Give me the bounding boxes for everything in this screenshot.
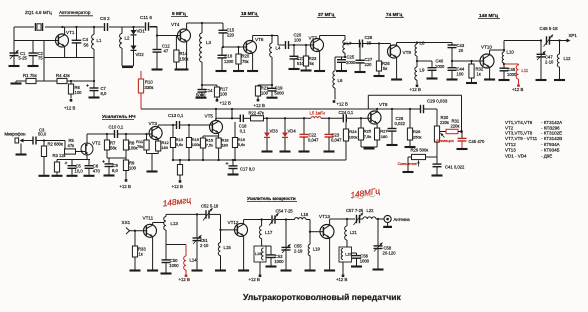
node L7 bottom bbox=[344, 53, 346, 58]
inductor L13 bbox=[164, 214, 179, 230]
wire C52 to VT12 bbox=[209, 214, 221, 242]
svg-text:C40: C40 bbox=[436, 59, 444, 64]
wire VT11 emitter bbox=[152, 237, 154, 270]
ground VD chain bbox=[122, 66, 133, 68]
transistor VT7 bbox=[309, 36, 324, 52]
svg-text:R22 47к: R22 47к bbox=[249, 110, 265, 115]
transistor VT6 bbox=[244, 37, 264, 54]
heading 9 МГц bbox=[171, 11, 188, 17]
svg-text:2-10: 2-10 bbox=[200, 243, 209, 248]
supply +12V row bbox=[172, 180, 183, 189]
capacitor C58 trimmer bbox=[374, 219, 397, 269]
label R3 bbox=[53, 153, 66, 158]
microphone jack bbox=[15, 138, 29, 143]
ground VT3 bbox=[147, 170, 158, 172]
svg-text:Смещение: Смещение bbox=[398, 161, 417, 166]
svg-text:Усилитель мощности: Усилитель мощности bbox=[247, 196, 296, 201]
wire L8 to C43 bbox=[417, 43, 452, 46]
ground VT9 emitter bbox=[391, 78, 402, 80]
svg-text:+12 В: +12 В bbox=[220, 100, 231, 105]
diode VD1 bbox=[131, 27, 146, 35]
ground C12 bbox=[152, 68, 163, 70]
svg-text:47: 47 bbox=[164, 49, 169, 54]
svg-text:+12 В: +12 В bbox=[337, 102, 348, 107]
antenna connector bbox=[383, 215, 410, 227]
svg-text:20-120: 20-120 bbox=[383, 251, 397, 256]
heading 74 МГц bbox=[385, 12, 404, 18]
svg-text:1к: 1к bbox=[477, 72, 481, 77]
wire to VT5 base bbox=[180, 124, 213, 126]
wire L16 bottom bbox=[259, 262, 261, 274]
node L10 top bbox=[503, 49, 505, 51]
transistor VT10 bbox=[480, 45, 494, 69]
capacitor C10 bbox=[109, 125, 124, 138]
svg-text:L5 1мГн: L5 1мГн bbox=[310, 110, 326, 115]
resistor R18 bbox=[216, 136, 229, 160]
svg-text:Девиация: Девиация bbox=[436, 138, 454, 143]
svg-text:250к: 250к bbox=[413, 135, 422, 140]
capacitor C5 bbox=[65, 160, 84, 175]
svg-text:C25: C25 bbox=[347, 55, 355, 60]
svg-text:148 МГц: 148 МГц bbox=[479, 13, 498, 19]
svg-text:10,0: 10,0 bbox=[75, 169, 84, 174]
diode VD2 bbox=[131, 36, 145, 67]
resistor R32 bbox=[469, 60, 484, 82]
ground VT11 bbox=[147, 269, 158, 271]
ground L19 bbox=[305, 269, 316, 271]
inductor L12 bbox=[557, 41, 571, 80]
svg-text:VD3: VD3 bbox=[270, 128, 279, 133]
transistor VT2 bbox=[76, 141, 101, 155]
heading 37 МГц bbox=[317, 12, 336, 18]
handwritten 148MHz left bbox=[162, 195, 192, 209]
capacitor C17 bbox=[226, 159, 256, 174]
heading Усилитель мощности bbox=[247, 196, 297, 202]
node L12 top bbox=[558, 39, 560, 41]
svg-text:C16: C16 bbox=[225, 54, 233, 59]
inductor L11 choke bbox=[504, 64, 529, 84]
svg-text:5к: 5к bbox=[310, 61, 314, 66]
inductor L16 shielded bbox=[254, 246, 266, 262]
svg-text:100: 100 bbox=[220, 91, 228, 96]
svg-text:5000: 5000 bbox=[196, 92, 206, 97]
resistor R21 bbox=[255, 85, 272, 99]
svg-text:L15: L15 bbox=[224, 245, 232, 250]
ground C55 bbox=[281, 269, 292, 271]
inductor L7 bbox=[343, 36, 352, 54]
svg-text:- КТ3142А: - КТ3142А bbox=[541, 120, 562, 125]
svg-text:C29 0,033: C29 0,033 bbox=[427, 99, 448, 104]
svg-text:C52 5-18: C52 5-18 bbox=[201, 204, 219, 209]
svg-text:1000: 1000 bbox=[507, 72, 517, 77]
ground R26 bbox=[374, 75, 385, 77]
svg-text:7,5к: 7,5к bbox=[364, 134, 372, 139]
svg-text:- КТ934А: - КТ934А bbox=[541, 142, 560, 147]
svg-text:7,5к: 7,5к bbox=[206, 143, 213, 148]
ground C53 bbox=[266, 265, 277, 267]
svg-text:L2: L2 bbox=[125, 36, 130, 41]
node L10 bottom bbox=[503, 63, 505, 68]
capacitor C51 trimmer bbox=[193, 213, 210, 269]
resistor R24 bbox=[343, 123, 357, 161]
inductor L15 bbox=[218, 242, 231, 269]
svg-text:74 МГц: 74 МГц bbox=[386, 12, 402, 18]
svg-text:1000: 1000 bbox=[169, 263, 179, 268]
svg-text:L18: L18 bbox=[301, 212, 309, 217]
ground C5 bbox=[67, 175, 78, 177]
diode VD4 varicap bbox=[282, 117, 296, 150]
capacitor C25 bbox=[337, 55, 356, 71]
supply +12V R21 bbox=[254, 99, 265, 108]
svg-text:+12 В: +12 В bbox=[410, 87, 421, 92]
svg-text:R10: R10 bbox=[145, 80, 153, 85]
svg-text:+12 В: +12 В bbox=[172, 184, 183, 189]
svg-text:VT2: VT2 bbox=[505, 125, 514, 130]
ground VD3 bbox=[262, 150, 273, 152]
ground C25 bbox=[336, 70, 347, 72]
svg-text:8,0: 8,0 bbox=[112, 168, 118, 173]
node L4 top bbox=[271, 34, 273, 36]
wire bus main bbox=[264, 117, 371, 119]
ground R20 bbox=[233, 70, 244, 72]
svg-text:VT1,VT4,VT6: VT1,VT4,VT6 bbox=[505, 120, 533, 125]
capacitor C45 bbox=[458, 132, 486, 149]
ground C46 bbox=[499, 79, 510, 81]
capacitor C14 bbox=[196, 85, 213, 97]
resistor R22 bbox=[249, 110, 265, 120]
label Девиация bbox=[436, 138, 454, 143]
wire VT11 collector tap bbox=[153, 223, 164, 226]
svg-text:Усилитель НЧ: Усилитель НЧ bbox=[102, 114, 136, 120]
svg-text:2-19: 2-19 bbox=[294, 248, 303, 253]
ground C51 bbox=[192, 269, 203, 271]
ground C47 bbox=[536, 79, 547, 81]
svg-text:L6: L6 bbox=[338, 78, 343, 83]
inductor L20 shielded bbox=[339, 247, 353, 262]
ground mic bbox=[16, 144, 27, 155]
svg-text:C22: C22 bbox=[309, 132, 317, 137]
svg-text:2000: 2000 bbox=[346, 60, 356, 65]
inductor L1 bbox=[92, 27, 102, 58]
wire VT10 base bbox=[452, 60, 483, 62]
svg-text:+12 В: +12 В bbox=[249, 277, 260, 282]
resistor R12 bbox=[156, 139, 169, 154]
ground C40 bbox=[427, 77, 438, 79]
wire output to pi filter bbox=[504, 41, 541, 51]
wire varicap feed line bbox=[141, 109, 437, 126]
ground R25 R27 bbox=[364, 147, 375, 149]
svg-text:1000: 1000 bbox=[435, 64, 445, 69]
node C55 top bbox=[285, 218, 287, 220]
capacitor C21 bbox=[290, 44, 305, 68]
ground C45 bbox=[457, 148, 468, 150]
inductor L22 bbox=[363, 208, 376, 219]
svg-text:5,6к: 5,6к bbox=[238, 142, 245, 147]
ground R1 left bbox=[11, 81, 22, 84]
resistor R17 bbox=[202, 85, 228, 99]
resistor R3 bbox=[54, 160, 59, 175]
wire R30 bottom bbox=[436, 142, 438, 157]
svg-text:C14: C14 bbox=[205, 88, 213, 93]
svg-text:330к: 330к bbox=[145, 85, 154, 90]
capacitor C19 bbox=[268, 85, 285, 97]
wire C57 to L22 bbox=[360, 218, 364, 220]
transistor VT1 bbox=[56, 30, 75, 47]
ground C14 bbox=[196, 97, 207, 99]
svg-text:- КП3296: - КП3296 bbox=[541, 125, 560, 130]
capacitor C47 trimmer bbox=[537, 41, 555, 80]
capacitor C6 bbox=[85, 160, 101, 175]
wire R7-R8 bottoms bbox=[107, 157, 126, 159]
resistor R5 bbox=[65, 138, 82, 154]
svg-text:5,6к: 5,6к bbox=[176, 142, 183, 147]
svg-text:- Д9Е: - Д9Е bbox=[541, 153, 552, 158]
svg-text:R24: R24 bbox=[349, 129, 357, 134]
node L3 bottom bbox=[201, 84, 203, 86]
ground R3 bbox=[52, 175, 63, 177]
inductor L4 bbox=[270, 36, 281, 86]
capacitor C12 bbox=[153, 44, 171, 69]
capacitor C48 trimmer bbox=[540, 26, 559, 47]
svg-text:- КТ3142В: - КТ3142В bbox=[541, 136, 562, 141]
svg-text:100: 100 bbox=[75, 90, 83, 95]
svg-text:L12: L12 bbox=[564, 56, 572, 61]
resistor R25 bbox=[358, 117, 372, 147]
ground VT6 emitter bbox=[247, 70, 258, 72]
svg-text:0,047: 0,047 bbox=[308, 138, 319, 143]
transistor VT12 bbox=[228, 220, 248, 236]
svg-text:C17 8,0: C17 8,0 bbox=[240, 166, 255, 171]
resistor R13 bbox=[170, 124, 183, 160]
ground VT4 bbox=[175, 68, 189, 70]
inductor L6 choke bbox=[333, 57, 345, 100]
wire VT4 collector bbox=[187, 23, 202, 30]
wire R25-R27 join bbox=[361, 146, 377, 148]
capacitor C29 bbox=[421, 99, 448, 114]
svg-text:L3: L3 bbox=[206, 40, 211, 45]
svg-text:220к: 220к bbox=[440, 120, 449, 125]
wire base divider bbox=[43, 41, 45, 82]
svg-text:220к: 220к bbox=[451, 124, 460, 129]
capacitor C26 bbox=[360, 35, 373, 48]
svg-text:180: 180 bbox=[221, 143, 228, 148]
capacitor C4 bbox=[72, 27, 89, 58]
label Микрофон bbox=[5, 132, 27, 137]
pencil note bbox=[352, 195, 375, 200]
wire VT12 base bbox=[219, 229, 237, 231]
node bias-C7 bbox=[93, 80, 95, 82]
capacitor C7 bbox=[86, 81, 107, 97]
wire VT8 collector bbox=[376, 109, 378, 112]
wire C11 to VT4 bbox=[150, 27, 181, 50]
wire VT1 collector bbox=[64, 27, 66, 35]
resistor R4 bbox=[56, 73, 70, 84]
svg-text:R1 75к: R1 75к bbox=[23, 73, 37, 78]
svg-text:C58: C58 bbox=[384, 245, 392, 250]
wire L3 collector bus bbox=[202, 22, 223, 24]
svg-text:VT10: VT10 bbox=[481, 45, 492, 50]
inductor L9 bbox=[415, 67, 425, 84]
supply +12V L9 bbox=[410, 84, 421, 92]
svg-text:37 МГц: 37 МГц bbox=[318, 12, 334, 18]
svg-text:C45 470: C45 470 bbox=[469, 139, 486, 144]
svg-text:VT8: VT8 bbox=[379, 102, 388, 107]
capacitor C53 bbox=[262, 246, 285, 266]
capacitor C54 trimmer bbox=[269, 209, 293, 226]
svg-text:+12 В: +12 В bbox=[512, 87, 523, 92]
connector XS1 bbox=[122, 220, 147, 234]
svg-text:VT11: VT11 bbox=[143, 216, 154, 221]
wire VT1 emitter bbox=[64, 46, 66, 57]
svg-text:R27: R27 bbox=[380, 129, 388, 134]
svg-text:5000: 5000 bbox=[275, 91, 285, 96]
svg-text:9 МГц: 9 МГц bbox=[172, 11, 186, 17]
inductor L19 bbox=[308, 232, 320, 270]
capacitor C46 bbox=[500, 67, 517, 79]
wire VT7 base bbox=[289, 44, 314, 46]
svg-text:+12 В: +12 В bbox=[336, 277, 347, 282]
wire C50-L14 branch bbox=[166, 244, 186, 246]
resistor R28 bbox=[407, 108, 421, 146]
node bias-R6 bbox=[70, 80, 72, 82]
svg-text:ХР1: ХР1 bbox=[569, 33, 578, 38]
svg-text:C57 7-25: C57 7-25 bbox=[346, 208, 364, 213]
svg-text:75к: 75к bbox=[242, 59, 249, 64]
svg-text:Микрофон: Микрофон bbox=[5, 132, 27, 137]
svg-text:- КТ3102Е: - КТ3102Е bbox=[541, 131, 562, 136]
ground C17 bbox=[228, 173, 239, 175]
resistor R14 bbox=[174, 36, 189, 70]
svg-text:VT12: VT12 bbox=[228, 220, 239, 225]
ground C27 bbox=[355, 71, 366, 73]
svg-text:VT1: VT1 bbox=[66, 30, 75, 35]
resistor R10 bbox=[138, 71, 153, 109]
svg-text:R25: R25 bbox=[364, 129, 372, 134]
diode VD3 varicap bbox=[264, 117, 278, 150]
wire VT6 emitter bbox=[252, 53, 254, 70]
svg-text:470: 470 bbox=[93, 169, 101, 174]
wire C54 to L18 bbox=[275, 219, 295, 221]
ground R28 bbox=[405, 146, 416, 148]
wire to XP1 bbox=[550, 40, 568, 42]
resistor R11 bbox=[136, 133, 149, 154]
wire VT9 collector bbox=[397, 43, 417, 46]
capacitor C41 bbox=[433, 157, 465, 175]
svg-text:100: 100 bbox=[129, 165, 137, 170]
supply +12V L14 bbox=[179, 274, 190, 282]
svg-text:L22: L22 bbox=[367, 208, 375, 213]
wire VT2 drain bbox=[87, 134, 115, 143]
ground C28 bbox=[387, 144, 398, 146]
wire L7 to C26 bbox=[344, 42, 360, 44]
resistor R16 bbox=[200, 136, 213, 160]
ground C44 bbox=[447, 78, 458, 80]
supply +12V L6 bbox=[333, 100, 348, 106]
svg-text:56к: 56к bbox=[110, 145, 117, 150]
svg-text:R28: R28 bbox=[413, 129, 421, 134]
svg-text:VD4: VD4 bbox=[288, 128, 297, 133]
capacitor C13 bbox=[168, 113, 184, 129]
ground VT7 emitter bbox=[314, 70, 325, 72]
capacitor C18 bbox=[239, 115, 247, 134]
inductor L5 bbox=[310, 110, 326, 118]
node C47 top bbox=[540, 39, 542, 41]
capacitor C55 trimmer bbox=[282, 220, 304, 270]
ground C21 bbox=[289, 68, 300, 70]
wire L13 bottom bbox=[165, 230, 167, 245]
svg-text:L19: L19 bbox=[313, 246, 321, 251]
wire bottom bias row bbox=[16, 80, 94, 82]
svg-text:VT3,VT5,VT8: VT3,VT5,VT8 bbox=[505, 131, 533, 136]
ground C1 bbox=[9, 65, 20, 67]
inductor L14 bbox=[184, 245, 197, 275]
svg-text:220: 220 bbox=[365, 62, 373, 67]
ground C19 bbox=[267, 97, 278, 99]
node rail-VD1 bbox=[132, 26, 134, 28]
crystal ZQ1 bbox=[35, 23, 42, 31]
wire L22 to antenna bbox=[376, 218, 384, 220]
svg-text:VT5: VT5 bbox=[205, 114, 214, 119]
ground R2 bbox=[39, 175, 50, 177]
ground C9 bbox=[104, 174, 115, 176]
svg-text:VT9: VT9 bbox=[403, 50, 412, 55]
svg-text:1000: 1000 bbox=[360, 259, 370, 264]
svg-text:VT2: VT2 bbox=[92, 141, 101, 146]
wire source row bbox=[57, 159, 90, 161]
wire VT13 collector bbox=[330, 219, 355, 225]
node L21 top bbox=[346, 218, 348, 220]
resistor R19 bbox=[232, 122, 245, 160]
capacitor C22 bbox=[300, 117, 320, 150]
node L8 top bbox=[416, 41, 418, 43]
capacitor C1 trimmer bbox=[10, 50, 28, 65]
ground VT13 bbox=[324, 269, 335, 271]
node rail-VT1 bbox=[61, 26, 63, 28]
wire mic to gate bbox=[36, 140, 65, 142]
wire VT2 source bbox=[86, 155, 88, 160]
inductor L21 bbox=[345, 219, 358, 247]
inductor L8 bbox=[415, 41, 425, 57]
capacitor C8 bbox=[100, 16, 110, 31]
connector XP1 bbox=[567, 33, 578, 43]
svg-text:R2 680к: R2 680к bbox=[48, 141, 64, 146]
svg-text:C8 2: C8 2 bbox=[100, 16, 110, 21]
svg-text:100: 100 bbox=[457, 71, 465, 76]
ground C2 bbox=[28, 65, 39, 67]
svg-text:VT13: VT13 bbox=[505, 147, 516, 152]
svg-text:148МГц: 148МГц bbox=[350, 186, 381, 200]
svg-text:C13 0,1: C13 0,1 bbox=[168, 113, 184, 118]
svg-text:180: 180 bbox=[381, 134, 388, 139]
wire bus left bbox=[216, 118, 241, 120]
svg-text:18 МГц: 18 МГц bbox=[241, 11, 257, 17]
node L19 top bbox=[309, 231, 311, 233]
svg-text:- КТ934Б: - КТ934Б bbox=[541, 147, 560, 152]
svg-text:L17: L17 bbox=[265, 230, 273, 235]
node rail-C4 bbox=[75, 26, 77, 28]
svg-text:VT7,VT9 - VT11: VT7,VT9 - VT11 bbox=[505, 136, 538, 141]
svg-text:+12 В: +12 В bbox=[120, 184, 131, 189]
heading 18 МГц bbox=[240, 11, 259, 17]
label Смещение bbox=[398, 161, 417, 166]
inductor L2 bbox=[120, 27, 130, 66]
supply +12V R17 bbox=[216, 99, 231, 105]
resistor R26 bbox=[376, 42, 390, 75]
wire emitter row bbox=[44, 57, 94, 59]
svg-text:2-10: 2-10 bbox=[545, 60, 554, 65]
supply +12V R6 bbox=[64, 99, 75, 111]
heading 148 МГц bbox=[478, 13, 500, 19]
